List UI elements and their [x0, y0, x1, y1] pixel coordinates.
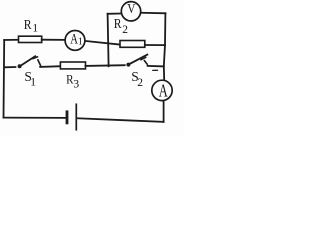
svg-text:2: 2 [122, 24, 128, 36]
wire: ammeter A to bottom-right corner [163, 101, 165, 122]
svg-text:2: 2 [137, 77, 143, 89]
switch S2 fixed contact [144, 61, 147, 65]
battery negative plate (short) [66, 112, 69, 123]
switch S2 blade end tick [141, 57, 146, 59]
svg-text:R: R [114, 16, 122, 31]
switch S1 fixed contact [38, 60, 41, 66]
svg-text:R: R [24, 17, 32, 32]
switch S2 blade [129, 55, 147, 65]
wire: R2 to right vertical [145, 44, 165, 46]
svg-text:1: 1 [32, 23, 38, 35]
wire: left vertical to switch S1 [5, 66, 16, 68]
wire: R1 to ammeter A1 [42, 39, 65, 41]
wire: voltmeter to top-right corner [141, 12, 165, 15]
wire: A1 to resistor R2 (through junction with voltmeter branch) [86, 41, 120, 45]
label S1 [24, 69, 36, 88]
wire: S1 to R3 [40, 65, 60, 68]
switch S1 pivot dot [18, 64, 22, 68]
svg-text:3: 3 [73, 78, 79, 90]
battery positive plate (long) [75, 104, 77, 129]
wire: right vertical (top-right corner down to ammeter A) [164, 13, 166, 79]
label R3 [66, 71, 79, 90]
wire: bottom horizontal left of battery [4, 117, 66, 119]
ammeter A1 [65, 31, 85, 51]
resistor R3 [60, 62, 85, 69]
switch S1 blade [21, 56, 36, 66]
svg-text:V: V [127, 2, 135, 17]
wire: voltmeter branch top-left horizontal [108, 13, 121, 15]
ammeter A [152, 80, 172, 100]
resistor R1 [19, 36, 42, 42]
voltmeter V [121, 2, 140, 21]
switch S2 pivot dot [126, 63, 130, 67]
wire: S2 to right vertical [148, 65, 164, 68]
wire: top-left horizontal to R1 [4, 39, 18, 41]
svg-text:A: A [159, 81, 168, 101]
switch S1 blade end tick [33, 57, 38, 59]
wire: bottom horizontal right of battery [78, 118, 164, 122]
wire: R3 to switch S2 (through junction) [86, 64, 125, 67]
svg-text:1: 1 [30, 76, 36, 88]
stray contact mark near right vertical [153, 69, 158, 71]
svg-text:1: 1 [78, 37, 83, 48]
label R2 [114, 16, 129, 36]
resistor R2 [120, 41, 145, 48]
label R1 [24, 17, 39, 35]
label S2 [131, 69, 143, 89]
wire: left vertical (top-left corner down to bottom-left corner) [3, 40, 6, 118]
node: junction of voltmeter branch, R2 and R3 branch (vertical link) [108, 14, 109, 67]
